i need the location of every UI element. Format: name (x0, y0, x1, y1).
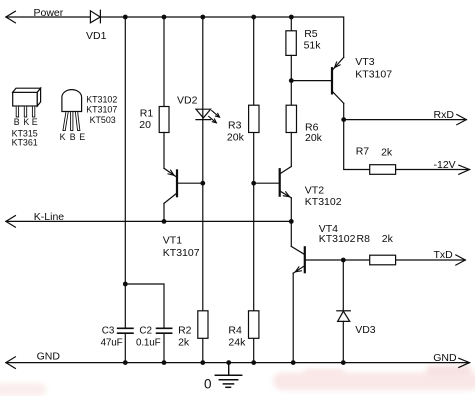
svg-text:R2: R2 (178, 325, 192, 337)
transistor VT1 KT3107 (PNP) (164, 168, 203, 221)
svg-text:E: E (79, 132, 85, 142)
node: junction K-Line / VT1 collector (162, 219, 167, 224)
svg-text:20k: 20k (227, 132, 245, 144)
svg-text:VT3: VT3 (355, 56, 374, 68)
wire: R8 to TxD (396, 259, 466, 261)
svg-text:GND: GND (37, 351, 61, 363)
wire: +12V power rail (top) (6, 17, 344, 57)
wire: C3 column from power rail to GND (124, 17, 126, 363)
wire: R7 to -12V (396, 169, 470, 171)
node: junction R5/R6 with VT3 base (289, 78, 294, 83)
resistor R8 (370, 255, 396, 265)
part label: VD2 (177, 95, 198, 107)
svg-text:2k: 2k (381, 147, 393, 159)
svg-text:KT3107: KT3107 (86, 105, 117, 115)
node: GND right arrow (459, 358, 470, 367)
net label: -12V (434, 159, 456, 171)
svg-text:R7: R7 (356, 145, 370, 157)
svg-text:51k: 51k (304, 40, 322, 52)
capacitor C2 (157, 328, 172, 362)
svg-text:R5: R5 (304, 28, 318, 40)
svg-text:B: B (14, 117, 20, 127)
wire: RxD output (344, 119, 467, 121)
svg-text:K: K (60, 132, 66, 142)
node: junction power rail / R5 (289, 15, 294, 20)
node: junction power rail / VD2 (200, 15, 205, 20)
value label: R6 20k (305, 122, 323, 145)
ground symbol (215, 363, 241, 388)
svg-text:VD1: VD1 (86, 30, 107, 42)
node: junction power rail / C3 column (123, 15, 128, 20)
wire: R5/R6 column from power rail (290, 17, 292, 31)
wire: TxD node down to VD3 (342, 260, 344, 311)
svg-text:20k: 20k (305, 132, 323, 144)
svg-text:R1: R1 (140, 108, 154, 120)
node: junction VD2/R2 with VT1 base (200, 181, 205, 186)
svg-text:2k: 2k (382, 233, 394, 245)
resistor R2 (198, 311, 208, 339)
part label: VT3 KT3107 (355, 56, 392, 80)
node: Power left arrow (6, 11, 16, 23)
svg-text:R3: R3 (228, 119, 242, 131)
wire: branch to C2 (125, 284, 164, 328)
node: junction R3/R4 with VT2 base (251, 181, 256, 186)
resistor R3 (249, 105, 259, 132)
svg-text:VD3: VD3 (355, 324, 376, 336)
node: -12V right arrow (459, 165, 470, 174)
svg-text:RxD: RxD (434, 109, 455, 121)
svg-text:KT503: KT503 (90, 115, 116, 125)
wire: R5 to R6 (290, 55, 292, 105)
wire: TxD node to R8 (343, 259, 369, 261)
transistor package TO-92 (pins K B E) (62, 90, 82, 131)
svg-text:B: B (70, 132, 76, 142)
svg-text:0.1uF: 0.1uF (136, 337, 161, 348)
value label: R7 2k (356, 145, 393, 158)
svg-text:E: E (32, 117, 38, 127)
node: junction C3 / C2 branch (123, 282, 128, 287)
resistor R6 (286, 105, 296, 132)
node: GND junction C2 (162, 360, 167, 365)
node: TxD junction (341, 258, 346, 263)
wire: GND rail (6, 362, 470, 364)
svg-text:R4: R4 (228, 325, 242, 337)
svg-text:VD2: VD2 (177, 95, 198, 107)
svg-text:K: K (23, 117, 29, 127)
resistor R5 (286, 31, 296, 56)
svg-text:0: 0 (204, 376, 212, 391)
resistor R4 (249, 311, 259, 339)
node: GND junction VT4 emitter (291, 360, 296, 365)
node: K-Line left arrow (6, 216, 16, 228)
value label: R3 20k (227, 119, 245, 143)
svg-text:K-Line: K-Line (34, 211, 65, 223)
value label: R2 2k (178, 325, 192, 349)
svg-text:C3: C3 (102, 325, 115, 336)
net label: 0 (ground) (204, 376, 212, 391)
svg-text:20: 20 (139, 119, 151, 131)
part label: VT4 KT3102 (319, 223, 356, 245)
svg-text:KT3102: KT3102 (319, 233, 356, 245)
node: junction power rail / R1 (162, 15, 167, 20)
transistor package KT315/KT361 (flat case, pins B K E) (13, 88, 41, 117)
transistor VT2 KT3102 (NPN) (254, 167, 292, 222)
resistor R1 (159, 107, 169, 133)
svg-text:47uF: 47uF (101, 337, 123, 348)
part label: VT1 KT3107 (163, 235, 200, 259)
value label: C2 0.1uF (136, 325, 161, 348)
node: junction power rail / R3 (251, 15, 256, 20)
pin labels: K B E (60, 132, 86, 142)
net label: GND (right) (433, 352, 457, 364)
net label: K-Line (34, 211, 65, 223)
svg-text:KT3102: KT3102 (305, 196, 342, 208)
transistor VT4 KT3102 (NPN) (291, 221, 343, 362)
LED VD2 (196, 109, 220, 123)
node: GND junction R4 (251, 360, 256, 365)
wire: VD2/R2 column from power rail (202, 17, 204, 363)
node: RxD right arrow (457, 115, 467, 125)
node: GND junction R2 (200, 360, 205, 365)
svg-text:C2: C2 (139, 325, 152, 336)
wire: R6 to VT2 collector (290, 133, 292, 167)
node: GND junction C3 (123, 360, 128, 365)
part label: KT315 KT361 (12, 128, 38, 147)
wire: RxD node down to R7 (344, 120, 370, 170)
svg-text:TxD: TxD (434, 249, 454, 261)
svg-text:KT3102: KT3102 (86, 95, 117, 105)
value label: R1 20 (139, 108, 153, 132)
resistor R7 (370, 165, 396, 175)
value label: R5 51k (304, 28, 322, 52)
svg-text:-12V: -12V (434, 159, 456, 171)
diode VD1 (90, 10, 100, 23)
svg-text:KT3107: KT3107 (163, 247, 200, 259)
transistor VT3 KT3107 (PNP) (291, 57, 343, 119)
part label: KT3102 KT3107 KT503 (86, 95, 117, 126)
value label: R8 2k (357, 233, 394, 245)
net label: GND (left) (37, 351, 61, 363)
value label: VD1 (86, 30, 107, 42)
svg-text:VT1: VT1 (163, 235, 182, 247)
wire: R1 to VT1 emitter (163, 133, 165, 169)
value label: R4 24k (228, 325, 246, 349)
wire: R1 column from power rail (163, 17, 165, 107)
node: GND junction VD3 (341, 360, 346, 365)
node: TxD right arrow (456, 255, 466, 265)
node: junction K-Line / VT2 emitter / VT4 collector (289, 219, 294, 224)
svg-text:VT2: VT2 (305, 185, 324, 197)
node: GND junction ground symbol (226, 360, 231, 365)
svg-text:KT3107: KT3107 (355, 68, 392, 80)
diode VD3 (337, 311, 351, 363)
capacitor C3 (118, 328, 133, 333)
net label: Power (34, 7, 64, 19)
part label: VT2 KT3102 (305, 185, 342, 209)
svg-text:Power: Power (34, 7, 64, 19)
node: GND left arrow (6, 357, 16, 369)
svg-text:GND: GND (433, 352, 457, 364)
svg-text:KT361: KT361 (12, 138, 38, 148)
wire: R3/R4 column from power rail (253, 17, 255, 363)
wire: K-Line rail (6, 220, 291, 222)
svg-text:2k: 2k (178, 337, 190, 349)
pin labels: B K E (14, 117, 38, 127)
svg-text:R8: R8 (357, 233, 371, 245)
node: RxD junction (341, 117, 346, 122)
svg-text:24k: 24k (228, 337, 246, 349)
value label: C3 47uF (101, 325, 123, 348)
part label: VD3 (355, 324, 376, 336)
net label: TxD (434, 249, 454, 261)
net label: RxD (434, 109, 455, 121)
